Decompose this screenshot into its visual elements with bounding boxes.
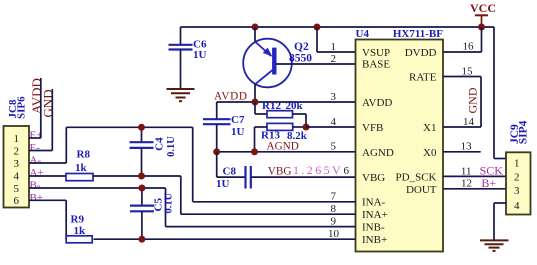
svg-text:HX711-BF: HX711-BF <box>393 28 443 40</box>
ground below JC9 <box>480 240 509 251</box>
wire AVDD row to pin3 <box>217 101 356 103</box>
wire A+ row to INA+ <box>142 176 356 214</box>
svg-text:5: 5 <box>14 183 20 195</box>
svg-text:1: 1 <box>331 41 337 53</box>
node junction AGND C7 <box>213 148 220 155</box>
node junction AVDD collector <box>252 99 259 106</box>
svg-text:1: 1 <box>514 158 520 170</box>
svg-text:AGND: AGND <box>267 140 299 152</box>
power VCC <box>470 1 496 27</box>
svg-text:C7: C7 <box>231 114 245 126</box>
svg-text:B+: B+ <box>30 192 44 204</box>
connector JC8 SIP6 <box>4 96 30 208</box>
wire JC8 pin1 E+ to AVDD <box>29 78 41 138</box>
node junction C4 top <box>138 124 145 131</box>
svg-text:1U: 1U <box>216 178 230 190</box>
svg-text:6: 6 <box>344 165 350 177</box>
svg-text:1k: 1k <box>75 162 88 174</box>
svg-text:INA+: INA+ <box>362 209 388 221</box>
svg-text:VBG: VBG <box>268 166 292 178</box>
svg-text:E-: E- <box>30 142 41 154</box>
svg-text:1U: 1U <box>231 126 245 138</box>
wire pin12 DOUT to JC9 pin3 <box>443 188 506 190</box>
node junction top rail at emitter <box>252 24 259 31</box>
svg-text:10: 10 <box>328 228 340 240</box>
svg-text:9: 9 <box>331 215 337 227</box>
svg-text:SIP4: SIP4 <box>517 120 529 144</box>
svg-text:4: 4 <box>14 170 20 182</box>
node junction C5 bottom <box>138 236 145 243</box>
wire JC8 pin2 E- to GND <box>29 89 52 151</box>
node junction C4 bottom <box>138 173 145 180</box>
svg-text:8550: 8550 <box>289 53 312 65</box>
svg-text:PD_SCK: PD_SCK <box>396 171 437 183</box>
svg-text:2: 2 <box>14 145 20 157</box>
svg-text:3: 3 <box>514 185 520 197</box>
capacitor C5 <box>130 188 174 239</box>
svg-text:C8: C8 <box>223 165 237 177</box>
svg-text:GND: GND <box>466 87 480 113</box>
svg-text:1: 1 <box>14 133 20 145</box>
svg-text:R12: R12 <box>262 100 281 112</box>
svg-text:13: 13 <box>461 141 473 153</box>
ground below C6 <box>167 89 195 101</box>
connector JC9 SIP4 <box>506 120 531 214</box>
node junction top rail at VCC <box>478 24 485 31</box>
svg-text:8: 8 <box>331 203 337 215</box>
svg-text:DOUT: DOUT <box>406 184 437 196</box>
svg-text:RATE: RATE <box>409 72 437 84</box>
wire pin11 SCK to JC9 pin2 <box>443 175 506 177</box>
wire JC8 pin5 B- to INB- <box>29 188 356 227</box>
svg-text:AVDD: AVDD <box>214 91 248 103</box>
capacitor C4 <box>130 127 178 176</box>
svg-text:R9: R9 <box>71 214 85 226</box>
svg-text:VFB: VFB <box>362 122 383 134</box>
capacitor C8 <box>216 152 356 190</box>
wire AGND row to pin5 <box>217 151 356 153</box>
resistor R9 <box>66 214 142 243</box>
svg-text:7: 7 <box>331 190 337 202</box>
svg-text:C4: C4 <box>154 137 166 151</box>
svg-text:3: 3 <box>331 91 337 103</box>
svg-text:0.1U: 0.1U <box>166 136 177 157</box>
svg-text:A+: A+ <box>30 167 44 179</box>
svg-text:R8: R8 <box>77 149 91 161</box>
svg-text:12: 12 <box>461 178 472 190</box>
resistor R13 <box>255 123 308 151</box>
svg-text:4: 4 <box>514 200 520 212</box>
node junction AGND R13 <box>251 148 258 155</box>
wire pin15 to pin14 GND net <box>443 77 481 128</box>
svg-text:A-: A- <box>30 155 42 167</box>
svg-text:VBG: VBG <box>362 172 385 184</box>
wire VCC rail down to JC9 pin1 <box>494 27 506 159</box>
node junction top rail at pin1 riser <box>314 24 321 31</box>
capacitor C7 <box>203 102 245 152</box>
svg-text:INB+: INB+ <box>362 234 387 246</box>
svg-text:5: 5 <box>331 141 337 153</box>
wire top rail VCC <box>181 26 495 28</box>
wire JC9 pin4 to ground <box>494 203 506 240</box>
svg-text:6: 6 <box>14 195 20 207</box>
svg-text:B+: B+ <box>481 176 496 190</box>
wire VFB to pin4 <box>306 126 356 128</box>
svg-text:INB-: INB- <box>362 222 385 234</box>
svg-text:16: 16 <box>463 40 475 52</box>
wire pin13 stub X0 <box>443 151 481 153</box>
IC U4 HX711-BF body <box>356 28 444 252</box>
svg-text:SIP6: SIP6 <box>16 96 28 119</box>
transistor Q2 8550 PNP <box>243 27 312 102</box>
IC U4 right pin names <box>396 47 437 196</box>
capacitor C6 <box>169 27 207 89</box>
svg-text:2: 2 <box>514 172 520 184</box>
svg-text:3: 3 <box>14 158 20 170</box>
svg-text:20k: 20k <box>286 100 304 112</box>
svg-text:1.265V: 1.265V <box>293 163 343 177</box>
svg-text:4: 4 <box>331 116 337 128</box>
svg-text:AGND: AGND <box>362 147 394 159</box>
svg-text:B-: B- <box>30 180 41 192</box>
wire pin1 riser <box>317 27 356 52</box>
node junction VFB <box>303 124 310 131</box>
svg-text:VCC: VCC <box>470 1 496 15</box>
svg-text:15: 15 <box>462 65 474 77</box>
IC U4 left pin names <box>362 47 394 246</box>
svg-text:14: 14 <box>463 116 475 128</box>
svg-text:11: 11 <box>461 165 472 177</box>
svg-text:U4: U4 <box>356 28 370 40</box>
svg-text:X1: X1 <box>423 122 436 134</box>
svg-text:1U: 1U <box>193 49 207 61</box>
wire JC8 pin3 A- to INA- <box>29 127 356 202</box>
wire JC8 pin6 B+ down <box>29 200 66 239</box>
svg-text:INA-: INA- <box>362 197 386 209</box>
svg-text:BASE: BASE <box>362 59 390 71</box>
svg-text:0.1U: 0.1U <box>163 192 174 213</box>
node junction C5 top <box>138 185 145 192</box>
svg-text:2: 2 <box>331 53 337 65</box>
svg-text:Q2: Q2 <box>294 41 309 53</box>
wire pin16 to VCC <box>443 27 482 52</box>
svg-text:1k: 1k <box>74 225 87 237</box>
resistor R12 <box>255 100 306 127</box>
svg-text:X0: X0 <box>423 147 437 159</box>
svg-text:DVDD: DVDD <box>405 47 437 59</box>
wire B+ row to INB+ <box>142 238 356 240</box>
svg-text:AVDD: AVDD <box>362 97 392 109</box>
wire base Q2 to pin2 <box>276 63 356 65</box>
svg-text:VSUP: VSUP <box>362 47 390 59</box>
resistor R8 <box>29 149 142 181</box>
